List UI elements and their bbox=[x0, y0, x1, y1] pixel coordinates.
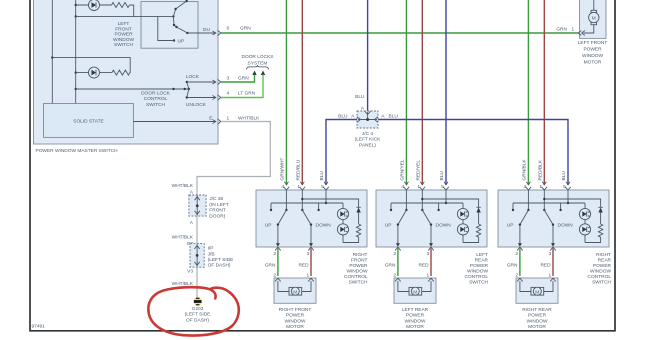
wire vertical feed left bbox=[51, 0, 53, 104]
arrow to door locks (unlock) bbox=[261, 71, 265, 76]
wire BLU right branch bbox=[378, 120, 568, 186]
pin 6 connector bbox=[213, 30, 221, 36]
svg-text:GRN/BLK: GRN/BLK bbox=[521, 159, 527, 181]
LED lamp L1 bbox=[89, 0, 100, 11]
svg-text:V3: V3 bbox=[187, 269, 193, 275]
wire bus to switch bbox=[76, 15, 174, 17]
window switch contact chain bbox=[173, 0, 186, 27]
svg-text:GRN: GRN bbox=[240, 26, 251, 32]
power window master switch box bbox=[34, 0, 219, 144]
node bbox=[75, 4, 77, 6]
motor M1 bbox=[584, 0, 594, 33]
vertical wire RED/BLU bbox=[301, 0, 303, 185]
right rear power window control switch S3 bbox=[498, 182, 609, 303]
wire WHT/BLK bbox=[196, 216, 198, 244]
left front power window motor box bbox=[580, 0, 607, 38]
door lock switch arms bbox=[187, 82, 189, 98]
svg-text:4: 4 bbox=[227, 91, 230, 97]
wire vertical feed second bbox=[75, 0, 77, 104]
pin 3 connector bbox=[213, 79, 221, 85]
svg-text:GRN: GRN bbox=[556, 26, 567, 32]
svg-text:RED/BLU: RED/BLU bbox=[295, 159, 301, 180]
node bbox=[75, 15, 77, 17]
svg-text:RED/BLK: RED/BLK bbox=[537, 159, 543, 180]
svg-text:GRN: GRN bbox=[238, 76, 249, 82]
node bbox=[75, 71, 77, 73]
svg-text:1: 1 bbox=[572, 26, 575, 32]
svg-text:3: 3 bbox=[227, 76, 230, 82]
svg-text:UP: UP bbox=[178, 39, 185, 45]
wire GRN pin3 bbox=[221, 75, 255, 83]
wire illumination branch top bbox=[76, 5, 134, 16]
wire DU output bbox=[187, 32, 215, 34]
wire solid state output E bbox=[133, 121, 215, 123]
svg-text:WHT/BLK: WHT/BLK bbox=[238, 116, 260, 122]
node bbox=[75, 88, 77, 90]
vertical wire RED/BLK bbox=[543, 0, 545, 185]
solid state box bbox=[44, 104, 134, 138]
junction block J/B bbox=[190, 244, 204, 268]
svg-text:BLU: BLU bbox=[561, 171, 567, 181]
svg-text:BLU: BLU bbox=[355, 94, 365, 100]
svg-text:97491: 97491 bbox=[32, 324, 46, 330]
arrow to door locks (lock) bbox=[252, 71, 256, 76]
svg-text:M: M bbox=[592, 16, 596, 22]
svg-text:6: 6 bbox=[227, 26, 230, 32]
svg-text:POWER WINDOW MASTER SWITCH: POWER WINDOW MASTER SWITCH bbox=[36, 148, 119, 154]
vertical wire GRN/YEL bbox=[405, 0, 407, 185]
vertical wire BLU center bbox=[445, 0, 447, 185]
svg-text:1: 1 bbox=[227, 116, 230, 122]
wire lock switch common bbox=[76, 88, 189, 90]
wire LT GRN pin4 bbox=[221, 75, 263, 98]
left rear power window control switch S2 bbox=[376, 182, 487, 303]
wire unlock output bbox=[187, 97, 216, 99]
svg-text:LT GRN: LT GRN bbox=[238, 91, 256, 97]
node bbox=[172, 15, 174, 17]
vertical wire RED/YEL bbox=[421, 0, 423, 185]
junction connector J/C 4 bbox=[357, 111, 378, 128]
wire WHT/BLK ground path bbox=[197, 122, 270, 196]
LOCK contact bbox=[186, 81, 188, 83]
vertical wire GRN/WHT bbox=[285, 0, 287, 185]
svg-text:SOLID STATE: SOLID STATE bbox=[73, 119, 103, 125]
node on left feed bbox=[51, 56, 53, 58]
svg-text:BLU: BLU bbox=[439, 171, 445, 181]
wire lock output bbox=[187, 81, 216, 83]
svg-text:WHT/BLK: WHT/BLK bbox=[172, 281, 194, 287]
svg-text:BLU: BLU bbox=[389, 114, 399, 120]
wire WHT/BLK to ground bbox=[196, 267, 198, 297]
vertical wire GRN/BLK bbox=[527, 0, 529, 185]
wire door lock feed branch bbox=[52, 58, 130, 73]
svg-text:WHT/BLK: WHT/BLK bbox=[172, 183, 194, 189]
UNLOCK contact bbox=[186, 96, 188, 98]
svg-text:UNLOCK: UNLOCK bbox=[186, 102, 207, 108]
UP contact bbox=[173, 39, 175, 41]
svg-text:DU: DU bbox=[203, 27, 210, 33]
brace bbox=[247, 65, 269, 69]
svg-text:BLU: BLU bbox=[319, 171, 325, 181]
pin 4 connector bbox=[213, 95, 221, 101]
LED lamp L2 bbox=[89, 67, 100, 78]
wire BLU from top to J/C 4 bbox=[367, 0, 369, 111]
svg-text:WHT/BLK: WHT/BLK bbox=[172, 235, 194, 241]
wire BLU left branch bbox=[326, 120, 357, 186]
svg-text:BLU: BLU bbox=[338, 114, 348, 120]
inner box left front power window switch bbox=[141, 2, 198, 49]
wire GRN pin6 to LF motor bbox=[221, 32, 578, 34]
svg-text:LOCK: LOCK bbox=[186, 74, 200, 80]
resistor R2 bbox=[112, 70, 130, 75]
ground G202 bbox=[193, 297, 202, 305]
svg-text:RED/YEL: RED/YEL bbox=[415, 160, 421, 181]
svg-text:GRN/WHT: GRN/WHT bbox=[279, 158, 285, 181]
switch arm to DU bbox=[177, 27, 188, 33]
right front power window control switch S1 bbox=[256, 182, 367, 303]
junction connector J/C 36 bbox=[189, 195, 206, 216]
svg-text:E: E bbox=[209, 116, 212, 122]
wire UP contact branch bbox=[158, 16, 174, 40]
motor pin connector bbox=[578, 31, 585, 36]
red hand-drawn annotation circle bbox=[148, 287, 238, 335]
svg-text:GRN/YEL: GRN/YEL bbox=[399, 159, 405, 180]
resistor R1 bbox=[112, 3, 130, 8]
pin 1 connector bbox=[213, 119, 221, 125]
